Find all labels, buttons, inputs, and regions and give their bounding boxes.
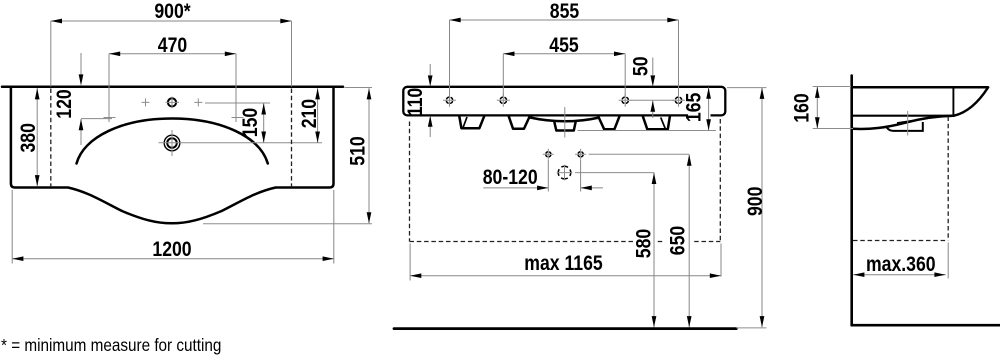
leader drain to 580 dim [575, 172, 654, 174]
svg-text:470: 470 [158, 34, 187, 58]
drain centerline right view [907, 111, 909, 136]
dim 165 [708, 87, 710, 130]
faucet hole centerlines [166, 97, 180, 109]
svg-text:50: 50 [629, 56, 653, 76]
svg-text:* = minimum measure for cuttin: * = minimum measure for cutting [1, 335, 221, 355]
floor line middle [394, 327, 736, 330]
foot rib 1 [459, 116, 484, 128]
dashed furniture zone [410, 119, 721, 242]
drain outer circle [164, 135, 180, 151]
svg-text:80-120: 80-120 [483, 166, 538, 190]
dim 160 [816, 87, 818, 129]
washbasin top edge [2, 86, 343, 89]
washbasin body outline [11, 88, 334, 223]
svg-text:110: 110 [404, 88, 428, 116]
mask rect bottom edge behind 165 label [688, 113, 711, 118]
faucet hole circle [168, 98, 176, 106]
basin underside at wall [852, 115, 954, 117]
drain leader line to right dims [159, 142, 323, 144]
svg-text:120: 120 [53, 89, 77, 118]
svg-text:160: 160 [790, 93, 814, 122]
foot rib 4 [643, 116, 670, 129]
dashed cut line left [50, 89, 52, 188]
dim 80-120 [483, 160, 603, 192]
floor extension to 900 dim [736, 327, 766, 329]
svg-text:210: 210 [298, 99, 322, 128]
dim 510 [368, 88, 370, 223]
supply point right [578, 152, 583, 157]
cross mark 470 right hole [232, 117, 244, 119]
dim 210 [317, 88, 319, 143]
cross mark left faucet option [142, 98, 150, 106]
dashed max360 zone [853, 117, 948, 241]
dim 1200 [12, 190, 334, 264]
dim 580 [653, 173, 655, 327]
foot rib 4 inner edge [661, 117, 666, 128]
basin nose curve [954, 88, 988, 116]
cross mark right faucet option [194, 98, 202, 106]
drain centerline vertical [171, 130, 173, 156]
svg-text:max.360: max.360 [866, 253, 936, 277]
svg-text:855: 855 [550, 0, 580, 23]
mounting hole 2 [500, 97, 506, 103]
dim 900 [761, 88, 763, 328]
bowl underside curve [853, 116, 954, 129]
mounting hole 4 [675, 97, 681, 103]
svg-text:455: 455 [549, 34, 579, 58]
foot rib 3 [599, 116, 620, 129]
svg-text:380: 380 [16, 123, 40, 152]
svg-text:150: 150 [239, 108, 263, 137]
svg-text:900*: 900* [154, 0, 191, 23]
dim 855 [450, 20, 679, 96]
supply point left [546, 152, 551, 157]
dim 120 [81, 53, 112, 145]
dim 470 [109, 54, 236, 122]
dim 150 [263, 103, 265, 142]
leader faucet row to 150 dim [205, 102, 270, 104]
drain box middle view [554, 122, 575, 130]
drain point middle lower [558, 166, 571, 179]
dash gaps behind labels [633, 238, 655, 246]
dim 650 [688, 155, 690, 328]
dim 110 [429, 64, 431, 137]
dim 455 [503, 54, 625, 96]
mounting hole 1 [446, 97, 452, 103]
wall line [850, 76, 853, 326]
svg-text:1200: 1200 [152, 237, 191, 261]
basin profile top [852, 86, 988, 89]
dim 380 [36, 88, 38, 186]
drain centerline middle view [564, 107, 566, 138]
dim max 1165 [410, 244, 721, 281]
drain trap right view [887, 122, 923, 131]
floor line right [852, 324, 1000, 327]
cross mark 470 left hole [104, 117, 116, 119]
svg-text:580: 580 [632, 229, 656, 258]
foot rib 2 [509, 116, 530, 129]
svg-text:900: 900 [743, 187, 767, 216]
bowl bottom arc middle view [529, 117, 598, 121]
dim 50 [652, 58, 654, 119]
dim 900* [51, 21, 292, 87]
mounting plan rectangle [403, 87, 725, 116]
mounting hole 3 [622, 97, 628, 103]
leader supply to 650 dim [589, 153, 690, 155]
foot rib 1 inner edge [463, 117, 467, 128]
svg-text:510: 510 [346, 136, 370, 165]
svg-text:650: 650 [666, 226, 690, 255]
bowl inner wall line [897, 117, 939, 123]
svg-text:max 1165: max 1165 [524, 252, 603, 276]
basin bowl rim arc [77, 119, 268, 164]
drain inner circle [167, 138, 177, 148]
leader drain box bottom to 165 dim [578, 130, 717, 132]
dashed cut line right [291, 89, 293, 188]
svg-text:165: 165 [682, 92, 706, 122]
dim max.360 [853, 243, 948, 279]
basin front vertical [952, 88, 954, 116]
